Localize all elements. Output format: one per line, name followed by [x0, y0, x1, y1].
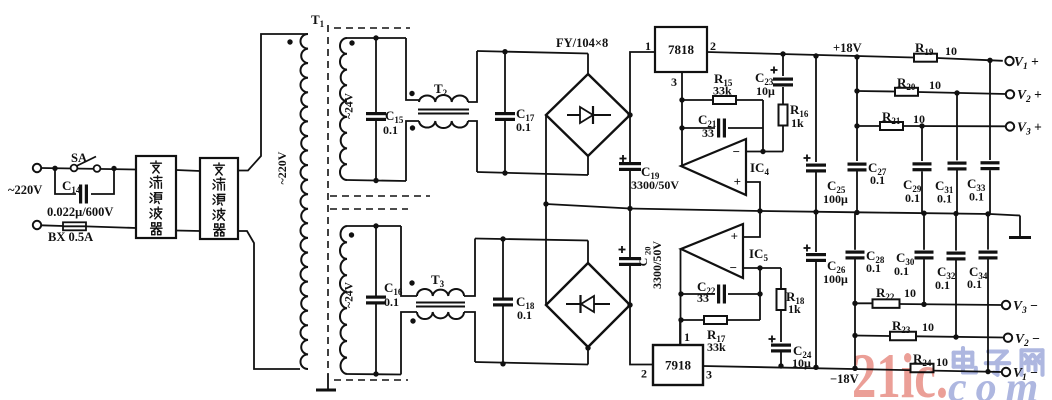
wire C17 lower lead: [504, 121, 506, 173]
wire C16 lower lead: [375, 305, 377, 375]
shield box bottom dashed: [334, 379, 408, 381]
T1 core / shield dashed line: [327, 25, 329, 374]
wire fuse to filter 1: [86, 226, 136, 228]
capacitor C15: [366, 112, 386, 115]
wire filter2 to T1 primary top: [238, 34, 308, 171]
wire +18V rail: [707, 52, 913, 58]
junction V2- C32: [953, 334, 958, 339]
junction mid rail C19/C20: [627, 206, 632, 211]
capacitor C26 100u: [806, 253, 826, 256]
terminal V2+: [1006, 90, 1014, 98]
svg-text:21ic.: 21ic.: [852, 340, 948, 400]
wire C33 upper lead: [989, 60, 991, 160]
wire C28 to -18V bus: [854, 260, 856, 369]
svg-text:0.022μ/600V: 0.022μ/600V: [47, 205, 113, 219]
diode symbol in top bridge: [567, 114, 611, 116]
plus sign C26: [804, 247, 811, 249]
plus sign C24: [769, 338, 776, 340]
wire to T2 top winding: [406, 38, 419, 100]
junction C21 left: [679, 125, 684, 130]
svg-text:33: 33: [697, 291, 709, 305]
svg-text:3: 3: [706, 368, 712, 382]
terminal V1-: [1002, 368, 1010, 376]
capacitor C16: [366, 296, 386, 299]
wire R16 to minus node: [782, 126, 784, 152]
svg-text:1: 1: [684, 330, 690, 344]
capacitor C17: [495, 112, 515, 115]
junction mid rail C25/C26: [813, 209, 818, 214]
junction bottom bridge right corner (DC-): [627, 302, 632, 307]
wire C27 lower lead: [856, 172, 858, 213]
svg-text:0.1: 0.1: [894, 264, 909, 278]
svg-text:10: 10: [945, 44, 957, 58]
svg-text:3300/50V: 3300/50V: [631, 178, 679, 192]
choke T3 top winding: [417, 289, 464, 296]
wire secondary upper top: [347, 37, 406, 39]
resistor R20 10: [895, 88, 918, 96]
bridge rectifier bottom (FY/104x8): [546, 263, 630, 347]
capacitor C21 33: [717, 119, 720, 138]
wire T3 bottom winding to secondary bottom: [401, 312, 417, 375]
plus sign C19: [620, 158, 627, 160]
wire C24 lower lead: [780, 353, 782, 367]
svg-text:7918: 7918: [665, 358, 692, 373]
svg-text:FY/104×8: FY/104×8: [556, 36, 608, 50]
polarity dot T1 primary: [287, 39, 292, 44]
wire C30 upper lead: [923, 213, 925, 250]
junction C14 left: [52, 166, 57, 171]
AC2 wire upper section: [477, 172, 588, 175]
wire 7818 pin3 node to IC4 output: [681, 100, 683, 166]
junction C16 bottom: [373, 371, 378, 376]
wire -18V rail: [703, 366, 1003, 372]
junction C26 bottom: [813, 365, 818, 370]
wire R17 right lead: [727, 319, 760, 321]
wire AC1 to bottom bridge top corner: [587, 241, 589, 264]
resistor R16 1k: [779, 105, 788, 126]
wire C22/R17 right column to minus node: [759, 268, 761, 320]
wire R20 to V2+: [918, 92, 1006, 94]
shield box top dashed: [334, 27, 410, 29]
junction C14 right: [111, 166, 116, 171]
wire +18V bus to R20 R21 C27: [856, 57, 858, 161]
svg-text:0.1: 0.1: [384, 295, 399, 309]
resistor R22 10: [873, 299, 900, 308]
wire R15 left lead: [682, 99, 713, 101]
junction R23 row: [852, 333, 857, 338]
AC2 wire lower section: [475, 362, 588, 365]
svg-text:0.1: 0.1: [517, 308, 532, 322]
wire +18V bus to R21: [857, 125, 879, 127]
svg-text:−: −: [733, 144, 740, 159]
svg-text:0.1: 0.1: [870, 173, 885, 187]
junction C23 top on +18V rail: [780, 51, 785, 56]
junction +18V bus down: [854, 54, 859, 59]
wire C30 lower lead: [923, 260, 925, 305]
AC1 rail upper section: [477, 51, 588, 54]
wire mid rail to bottom bridge left corner (DC+): [545, 204, 547, 305]
wire R17 left lead: [681, 319, 703, 321]
wire C33 lower lead: [989, 170, 991, 214]
wire C32 upper lead: [955, 214, 957, 251]
junction mid rail C31/C32: [953, 211, 958, 216]
svg-text:1k: 1k: [791, 116, 804, 130]
wire R21 to V3+: [903, 125, 1006, 127]
capacitor C33 0.1: [981, 161, 1000, 164]
svg-text:2: 2: [641, 367, 647, 381]
polarity dot T1 secondary upper: [349, 40, 354, 45]
wire secondary lower bottom: [347, 373, 401, 376]
choke T2 bottom winding: [419, 121, 468, 128]
svg-text:0.1: 0.1: [866, 261, 881, 275]
junction C25 top: [813, 53, 818, 58]
watermark 21ic.com dianziwang: [852, 340, 1047, 400]
choke T2 core: [418, 109, 469, 111]
wire C29 upper lead: [921, 126, 923, 161]
choke T3 core: [416, 302, 465, 304]
junction C16 top: [373, 223, 378, 228]
wire bridge bottom corner to AC2: [587, 156, 589, 175]
polarity dot T1 secondary lower: [349, 232, 354, 237]
svg-text:2: 2: [710, 39, 716, 53]
transformer T1 primary winding ~220V: [300, 34, 308, 369]
capacitor C19 3300/50V: [619, 162, 641, 165]
svg-text:+: +: [734, 174, 741, 189]
choke T3 bottom winding: [417, 312, 464, 319]
wire AC1 to bridge top corner: [587, 54, 589, 75]
junction R22 row: [852, 301, 857, 306]
op-amp IC5: [681, 224, 743, 278]
resistor R24 10: [911, 364, 934, 373]
svg-text:C: C: [636, 258, 650, 267]
wire C29 lower lead: [921, 171, 923, 213]
svg-text:SA: SA: [71, 151, 87, 165]
wire IC5 output to 7918 pin1 node: [680, 249, 682, 345]
wire C14 right branch: [91, 168, 114, 194]
svg-text:3: 3: [671, 75, 677, 89]
regulator U 7818: [655, 27, 707, 72]
diode symbol in bottom bridge: [566, 303, 610, 305]
ground symbol right: [1019, 216, 1021, 237]
svg-text:1: 1: [645, 39, 651, 53]
wire C25 upper lead: [815, 56, 817, 162]
svg-text:33k: 33k: [707, 340, 726, 354]
wire C16 upper lead: [375, 226, 377, 296]
wire T2 bottom to AC wire lower: [468, 121, 477, 172]
svg-text:0.1: 0.1: [969, 190, 984, 204]
polarity dot T2 bottom: [410, 125, 415, 130]
junction C24 on -18V rail: [778, 363, 783, 368]
junction C22 right: [757, 291, 762, 296]
wire C22 left lead: [681, 293, 715, 295]
svg-text:7818: 7818: [668, 42, 695, 57]
wire C31 lower lead: [956, 171, 958, 214]
svg-text:100μ: 100μ: [823, 272, 848, 286]
terminal V3+: [1006, 122, 1014, 130]
junction V1+ C33: [987, 58, 992, 63]
svg-text:0.1: 0.1: [937, 192, 952, 206]
wire C34 upper lead: [987, 214, 989, 250]
wire minus node to R18: [780, 268, 782, 289]
junction C17 bottom: [502, 170, 507, 175]
wire C34 lower lead: [987, 260, 989, 372]
junction R17 left: [678, 317, 683, 322]
AC line filter box 1 (jiaoliu lüboqi): [136, 156, 176, 238]
svg-text:1k: 1k: [788, 302, 801, 316]
svg-text:10: 10: [922, 320, 934, 334]
junction V3- C30: [921, 302, 926, 307]
resistor R19 10: [914, 54, 937, 62]
wire T3 bottom to AC2 lower section: [464, 312, 475, 362]
transformer T1 secondary winding lower ~24V: [340, 226, 347, 374]
wire bus to R22: [855, 302, 872, 304]
svg-text:0.1: 0.1: [967, 277, 982, 291]
capacitor C28 0.1: [846, 251, 865, 254]
svg-text:10μ: 10μ: [756, 84, 775, 98]
terminal L input bottom: [33, 221, 41, 229]
terminal V1+: [1005, 57, 1013, 65]
svg-text:0.1: 0.1: [516, 120, 531, 134]
wire C17 upper lead: [504, 52, 506, 112]
svg-text:0.1: 0.1: [383, 123, 398, 137]
polarity dot T3 top: [409, 280, 414, 285]
wire T2 top to AC rail upper: [468, 51, 477, 102]
svg-text:+: +: [731, 229, 738, 244]
svg-text:~220V: ~220V: [275, 151, 289, 184]
capacitor C20 3300/50V: [619, 257, 641, 260]
junction mid rail C33/C34: [985, 211, 990, 216]
wire mid rail to C28: [854, 212, 856, 249]
wire C21 left lead: [682, 127, 715, 129]
resistor R18 1k: [777, 289, 786, 310]
wire C32 lower lead: [955, 261, 957, 338]
AC line filter box 2 (jiaoliu lüboqi): [200, 158, 238, 239]
wire C20 upper lead: [629, 209, 631, 258]
svg-text:33: 33: [702, 126, 714, 140]
svg-text:~24V: ~24V: [344, 281, 356, 307]
resistor R23 10: [890, 332, 916, 341]
wire mid 0V rail: [546, 204, 1020, 216]
terminal L input top: [33, 164, 41, 172]
wire IC4 + input to mid rail: [746, 182, 760, 211]
wire DC- to 7918 pin 2: [630, 305, 653, 365]
transformer T1 secondary winding upper ~24V: [340, 38, 347, 180]
wire C18 lower lead: [502, 307, 504, 364]
wire C15 lower lead: [375, 121, 377, 181]
svg-text:BX 0.5A: BX 0.5A: [48, 230, 93, 244]
capacitor C27 0.1: [848, 163, 867, 166]
svg-text:~24V: ~24V: [344, 92, 356, 118]
bridge rectifier top (FY/104x8): [546, 74, 630, 156]
plus sign C23: [771, 69, 778, 71]
capacitor C18: [493, 298, 513, 301]
junction mid rail left end: [543, 201, 548, 206]
junction C17 top: [502, 49, 507, 54]
capacitor C25 100u: [806, 164, 826, 167]
svg-text:10: 10: [913, 112, 925, 126]
wire C18 upper lead: [502, 239, 504, 298]
junction bridge right corner: [627, 112, 632, 117]
svg-text:−: −: [730, 260, 737, 275]
wire +18V bus to R20: [857, 90, 894, 93]
wire C19 upper lead: [629, 115, 631, 162]
wire bridge left corner (DC-) to mid rail: [545, 115, 547, 204]
resistor R21 10: [880, 122, 903, 130]
junction C22 left: [678, 291, 683, 296]
capacitor C29 0.1: [913, 162, 932, 165]
junction C18 bottom: [500, 361, 505, 366]
wire input top to filter 1: [41, 168, 136, 170]
svg-text:33k: 33k: [713, 84, 732, 98]
junction V3+ C29: [919, 123, 924, 128]
capacitor C31 0.1: [948, 162, 967, 165]
wire IC5 + input to mid rail: [743, 211, 760, 237]
capacitor C22 33: [717, 285, 720, 304]
svg-text:10: 10: [929, 78, 941, 92]
wire C26 upper lead: [815, 212, 817, 252]
wire C31 upper lead: [956, 93, 958, 160]
svg-text:0.1: 0.1: [905, 191, 920, 205]
capacitor C34 0.1: [979, 251, 998, 254]
polarity dot T3 bottom: [410, 318, 415, 323]
svg-text:~220V: ~220V: [8, 183, 42, 197]
junction R21 row: [854, 123, 859, 128]
wire filter1-filter2 top: [176, 170, 200, 171]
wire bottom bridge bottom corner to AC2: [587, 347, 589, 365]
wire R23 to V2-: [916, 336, 1004, 337]
resistor R15 33k: [713, 96, 736, 104]
wire IC5 inverting input row: [743, 267, 781, 269]
capacitor C23 10u: [773, 78, 793, 81]
junction mid rail op-amp + inputs: [757, 208, 762, 213]
terminal V2-: [1004, 334, 1012, 342]
svg-text:+18V: +18V: [833, 41, 862, 55]
wire C19 lower lead: [629, 171, 631, 209]
junction V2+ C31: [954, 90, 959, 95]
resistor R17 33k: [704, 316, 727, 324]
capacitor C30 0.1: [915, 251, 934, 254]
wire T3 top to AC1 lower section: [464, 239, 475, 297]
junction R15 left: [679, 97, 684, 102]
svg-text:0.1: 0.1: [935, 278, 950, 292]
wire 7818 pin 3 down: [681, 72, 683, 100]
svg-text:3300/50V: 3300/50V: [650, 241, 664, 289]
junction -18V bus: [852, 366, 857, 371]
wire C23 upper lead: [782, 54, 784, 76]
svg-text:100μ: 100μ: [823, 192, 848, 206]
wire C14 left branch: [55, 168, 76, 194]
wire R19 to V1+: [937, 58, 1003, 61]
wire R18 to C24: [780, 310, 782, 342]
capacitor C14: [79, 185, 82, 204]
wire secondary lower top: [347, 225, 401, 227]
wire C22 right lead: [728, 293, 760, 295]
plus sign C20: [619, 249, 626, 251]
wire IC4 inverting input row: [746, 151, 783, 153]
switch SA: [71, 165, 78, 172]
shield box mid dashed 2: [330, 208, 408, 210]
junction V1- C34: [985, 369, 990, 374]
AC1 wire lower section: [475, 239, 588, 241]
polarity dot T2 top: [409, 91, 414, 96]
wire C15 upper lead: [375, 38, 377, 112]
junction bottom bridge bottom corner: [585, 345, 590, 350]
wire R22 to V3-: [900, 304, 1002, 305]
wire C25 lower lead: [815, 173, 817, 213]
junction minus node IC4: [760, 149, 765, 154]
capacitor C24 10u: [771, 344, 791, 347]
wire filter2 to T1 primary bottom: [238, 231, 300, 369]
wire input bottom to fuse: [41, 224, 63, 227]
wire C23 to R16: [782, 87, 784, 104]
wire C20 lower lead: [629, 266, 631, 305]
terminal V3-: [1002, 301, 1010, 309]
wire C21 right lead: [728, 127, 763, 129]
wire 7918 pin 1 up: [679, 320, 681, 345]
choke T2 top winding: [419, 95, 468, 102]
ground T1 shield: [327, 374, 329, 389]
plus sign C25: [804, 157, 811, 159]
wire T2 bottom winding to secondary bottom: [406, 121, 419, 181]
fuse BX 0.5A: [63, 222, 86, 230]
junction R20 row: [854, 88, 859, 93]
op-amp IC4: [681, 139, 746, 195]
regulator U 7918: [653, 345, 703, 385]
wire filter1-filter2 bottom: [176, 230, 200, 233]
junction C15 bottom: [373, 178, 378, 183]
svg-text:10: 10: [904, 286, 916, 300]
capacitor C32 0.1: [947, 252, 966, 255]
wire bus to R23: [855, 335, 889, 338]
wire secondary upper bottom: [347, 180, 406, 181]
junction C15 top: [373, 35, 378, 40]
junction mid rail C27/C28: [854, 210, 859, 215]
junction mid rail C29/C30: [921, 211, 926, 216]
wire C26 lower lead: [815, 262, 817, 367]
svg-text:com: com: [948, 365, 1047, 400]
junction minus node IC5: [757, 265, 762, 270]
wire R15/C21 right to minus node: [762, 100, 764, 152]
wire R15 right lead: [736, 99, 763, 101]
junction C18 top: [500, 236, 505, 241]
wire to T3 top winding: [401, 226, 417, 296]
wire bridge right corner (DC+) to 7818 pin 1: [630, 52, 655, 115]
shield box mid dashed 1: [330, 195, 430, 197]
